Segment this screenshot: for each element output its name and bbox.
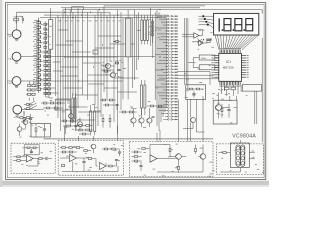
resistor R85 [195, 148, 197, 151]
IC1 pin bottom 8 [230, 81, 232, 85]
wire R103 area [119, 111, 137, 113]
resistor R61 [231, 87, 236, 90]
IC1 pin left 2 [214, 57, 219, 59]
IC1 pin bottom 3 [222, 81, 224, 85]
transistor Q4 [139, 118, 144, 123]
resistor R105 [102, 118, 104, 121]
buzzer coil turn 2 left [236, 152, 240, 156]
wire vertical bus 8 [72, 12, 74, 96]
wire F1-C1 link [16, 16, 23, 23]
IC1 pin top 7 [228, 50, 230, 54]
capacitor C22 [227, 109, 230, 110]
resistor R60 [224, 87, 229, 90]
wire opamp feed [182, 30, 207, 44]
diode D214 beside ladder [44, 88, 47, 90]
wire cluster [61, 121, 78, 131]
IC1 pin bottom 7 [228, 81, 230, 85]
wire vertical bus 29 [158, 12, 160, 131]
IC1 pin top 4 [224, 50, 226, 54]
wire ladder tap 8 [34, 53, 39, 55]
IC1 pin bottom 13 [238, 81, 240, 85]
buzzer coil turn 3 right [241, 157, 245, 161]
digit 1 [218, 18, 220, 31]
dashed box block 2 [58, 141, 123, 176]
transistor Q16 [78, 122, 83, 127]
wire vertical bus 27 [154, 12, 156, 100]
IC1 pin right 5 [241, 64, 246, 66]
wire diagonal taps [29, 101, 37, 109]
capacitor C31 [82, 161, 85, 162]
dashed box block 1 [11, 143, 55, 173]
scan shadow bottom edge [2, 181, 269, 186]
capacitor C30 [46, 157, 47, 160]
transistor Q12 [200, 154, 206, 160]
resistor R7 ladder [37, 50, 41, 52]
switch contact row 33 [159, 110, 168, 112]
IC1 pin bottom 11 [235, 81, 237, 85]
wire junction [64, 56, 65, 57]
IC1 pin right 8 [241, 71, 246, 73]
resistor R46 [63, 120, 66, 122]
wire vertical bus 25 [150, 8, 152, 46]
IC1 pin right 1 [241, 55, 246, 57]
resistor R81 [134, 156, 137, 158]
resistor R83 [142, 148, 145, 150]
wire ladder tap 10 [34, 62, 39, 64]
wire ladder tap 6 [34, 43, 39, 45]
connector pad P3 [205, 21, 207, 23]
transistor Q15 [69, 114, 74, 119]
wire vertical bus 1 [55, 18, 57, 96]
wire vertical bus 28 [156, 10, 158, 126]
wire junction [156, 17, 157, 18]
switch contact row 9 [159, 39, 168, 41]
IC1 pin right 3 [241, 59, 246, 61]
IC1 pin bottom 4 [224, 81, 226, 85]
LCD display DS1 box [214, 13, 259, 35]
resistor R22 HV bar [146, 20, 148, 40]
wire dashed top link [44, 138, 214, 140]
resistor R30 [104, 70, 107, 72]
op-amp IC1 ME7106 QFP body [219, 53, 242, 81]
capacitor bar pair C41 C42 [72, 98, 74, 119]
resistor R31 [115, 62, 118, 64]
diode D13 [152, 33, 154, 36]
resistor R12 ladder [37, 74, 41, 76]
resistor R42 [57, 102, 60, 104]
wire vertical bus 2 [57, 15, 59, 118]
resistor network RN1 tall box [49, 20, 53, 50]
wire vertical bus 23 [136, 15, 138, 70]
diode grid D301 [32, 85, 35, 87]
IC1 pin left 9 [214, 74, 219, 76]
diode D27 beside ladder [44, 56, 47, 58]
switch contact row 18 [165, 65, 168, 67]
resistor R80 [134, 151, 137, 153]
capacitor C31b [118, 152, 121, 153]
wire vertical bus 18 [109, 12, 111, 62]
resistor R71 [17, 160, 20, 162]
resistor R69a inside [27, 147, 30, 149]
IC1 pin bottom 14 [239, 81, 241, 85]
IC1 pin top 14 [239, 50, 241, 54]
connector pad P1 [202, 15, 204, 17]
wire block3 [132, 145, 204, 173]
resistor R45c [26, 117, 29, 119]
wire column B rail [44, 22, 46, 98]
wire ladder tap 2 [34, 24, 39, 26]
diode D211 beside ladder [44, 74, 47, 76]
switch contact row 2 [159, 18, 168, 20]
relay K1 box [31, 124, 51, 138]
switch contact row 4 [163, 24, 168, 26]
IC1 pin right 4 [241, 62, 246, 64]
wire vertical bus 16 [103, 8, 105, 92]
wire R107 [147, 105, 166, 107]
wire bus group: top horizontal rails [17, 11, 110, 13]
dashed separator line above bottom blocks [44, 138, 213, 140]
transistor Q20 [190, 117, 195, 122]
wire vertical bus 6 [67, 15, 69, 104]
wire junction [159, 9, 160, 10]
diode D29 beside ladder [44, 65, 47, 67]
resistor R48 [67, 125, 70, 127]
svg-text:IC1: IC1 [226, 60, 231, 64]
resistor R77 [61, 165, 64, 167]
battery box B1 [213, 100, 237, 124]
switch contact row 36 [163, 118, 168, 120]
input J1 10A jack [12, 30, 21, 39]
wire J3 right [21, 80, 123, 82]
capacitor C45 small box [93, 50, 98, 54]
IC1 pin bottom 6 [227, 81, 229, 85]
sub-circuit outline box [56, 99, 71, 110]
capacitor C16 [43, 129, 46, 130]
IC1 pin right 10 [241, 76, 246, 78]
fuse F1 [14, 18, 19, 21]
input J2 mA jack [12, 52, 21, 61]
wire ladder tap 11 [34, 67, 39, 69]
wire risers to bottom blocks [65, 96, 204, 142]
wire display bus hatch [218, 35, 256, 50]
resistor R20C column [47, 51, 50, 53]
diode grid D310 [28, 89, 31, 91]
connector pad P2 [204, 18, 206, 20]
switch contact row 30 [165, 101, 168, 103]
border frame outer [6, 3, 266, 180]
buzzer coil turn 1 left [236, 147, 240, 151]
wire Q15 Q16 [71, 110, 80, 131]
wire frame to J3 [7, 80, 12, 82]
wire ladder tap 9 [34, 57, 39, 59]
switch contact row 34 [161, 113, 168, 115]
resistor R74b [69, 151, 72, 153]
diode D210 beside ladder [44, 69, 47, 71]
wire junction [159, 56, 160, 57]
wire junction [99, 9, 100, 10]
wire vertical bus 11 [82, 10, 84, 95]
switch contact row 10 [163, 42, 168, 44]
wire vertical bus 19 [113, 15, 115, 122]
resistor R23C column [47, 65, 50, 67]
capacitor C40 [115, 104, 118, 105]
switch contact row 12 [157, 48, 168, 50]
resistor R5 ladder [37, 41, 41, 43]
resistor R73b [62, 151, 65, 153]
IC1 pin bottom 1 [219, 81, 221, 85]
wire R100 area [100, 100, 117, 110]
IC1 pin left 1 [214, 55, 219, 57]
wire vertical bus 21 [120, 12, 122, 110]
capacitor C1 [22, 18, 23, 21]
resistor R70 [17, 156, 20, 158]
IC1 pin left 4 [214, 62, 219, 64]
wire ladder bus vertical [38, 18, 40, 94]
resistor R2 ladder [37, 26, 41, 28]
resistor R27C column [47, 83, 50, 85]
buzzer BZ1 stadium right [241, 145, 245, 166]
wire block2b [61, 149, 120, 156]
diode D20 beside ladder [44, 23, 47, 25]
wire vertical bus 12 [87, 12, 89, 100]
svg-text:COM: COM [8, 83, 13, 85]
inner solid box block1 [24, 145, 39, 155]
buzzer coil turn 1 right [241, 147, 245, 151]
wire inside B1 [222, 104, 229, 118]
resistor R107 [150, 105, 153, 107]
op-amp U6 [150, 155, 157, 162]
svg-text:VΩ: VΩ [14, 117, 17, 119]
wire junction [72, 17, 73, 18]
wire ladder tap 13 [34, 76, 39, 78]
wire right-mid gap verticals [183, 100, 205, 142]
wire right rails [255, 38, 262, 142]
transistor Q1 [105, 63, 110, 68]
resistor R41 [50, 102, 53, 104]
diode D1 [26, 104, 29, 106]
wire display funnel right outer [261, 10, 263, 14]
resistor R11 ladder [37, 69, 41, 71]
wire frame to J1 [7, 33, 12, 35]
diode grid D311 [32, 89, 35, 91]
diode D40 [116, 41, 119, 43]
wire block2 bottom rail [62, 162, 118, 172]
wire R105 R106 [103, 114, 110, 128]
buzzer coil turn 4 left [236, 162, 240, 166]
resistor R78 [88, 158, 91, 160]
component value labels (illegible speck text) [20, 19, 265, 177]
switch contact row 20 [163, 71, 168, 73]
switch contact row 25 [155, 86, 167, 88]
wire diag cluster [197, 39, 204, 46]
resistor R20 HV bar [141, 20, 143, 40]
wire vertical bus 22 [134, 10, 136, 80]
diode D215 beside ladder [44, 92, 47, 94]
wire RN1 taps [45, 24, 49, 42]
digit 8 third [246, 19, 253, 31]
wire display funnel right [242, 35, 258, 50]
resistor R29C column [47, 92, 50, 94]
wire ladder tap 3 [34, 29, 39, 31]
digit 8 first [224, 19, 231, 31]
switch contact row 6 [165, 30, 168, 32]
wire junction [64, 12, 65, 13]
resistor R16 [23, 117, 25, 120]
capacitor C2 [29, 118, 32, 119]
wire inner box [25, 148, 39, 151]
op-amp U5B [100, 163, 107, 170]
diode D28 beside ladder [44, 60, 47, 62]
switch contact row 23 [165, 80, 168, 82]
wire ladder tap 1 [34, 19, 39, 21]
diode grid D320 [28, 93, 31, 95]
wire vertical bus 33 [166, 18, 168, 108]
resistor R25C column [47, 74, 50, 76]
wire vertical bus 9 [75, 15, 77, 131]
wire U3 [186, 89, 204, 98]
resistor R45b [20, 117, 23, 119]
resistor R3 ladder [37, 31, 41, 33]
wire block4 [219, 140, 255, 172]
resistor R90 [223, 152, 226, 154]
svg-text:F1: F1 [14, 16, 16, 18]
resistor R103 [122, 111, 125, 113]
wire vertical bus 7 [70, 10, 72, 126]
resistor R9 ladder [37, 60, 41, 62]
transistor Q2 [110, 72, 115, 77]
IC1 pin top 10 [233, 50, 235, 54]
wire J4 right [22, 109, 44, 111]
border frame inner [7, 4, 264, 177]
wire bundle left of opamp [185, 18, 188, 90]
switch contact row 1 [157, 15, 168, 17]
buzzer coil turn 3 left [236, 157, 240, 161]
IC1 pin top 11 [235, 50, 237, 54]
switch contact row 5 [155, 27, 167, 29]
op-amp U2B [199, 41, 204, 46]
IC1 pin left 3 [214, 59, 219, 61]
input J3 COM jack [12, 77, 21, 86]
switch contact row 3 [161, 21, 168, 23]
resistor R6 ladder [37, 45, 41, 47]
wire junction [102, 44, 103, 45]
resistor R69b inside [33, 147, 36, 149]
diode D25 beside ladder [44, 46, 47, 48]
resistor R106 [109, 118, 111, 121]
capacitor C29 inside [30, 151, 33, 152]
resistor network RN2 tall box [125, 18, 130, 57]
resistor R108 [158, 105, 161, 107]
resistor R72 [39, 158, 42, 160]
wire Q3-Q5 bases [134, 108, 150, 127]
wire below IC [219, 85, 234, 118]
resistor R8 ladder [37, 55, 41, 57]
diode grid D300 [28, 85, 31, 87]
resistor R21 HV bar [144, 20, 146, 40]
dashed box block 3 [130, 142, 214, 177]
resistor R15 ladder [37, 88, 41, 90]
resistor R74 [69, 147, 72, 149]
wire vertical bus 10 [77, 8, 79, 108]
diode grid D321 [32, 93, 35, 95]
wire jack J1 to top bus [17, 12, 61, 30]
transistor Q10 [91, 144, 96, 149]
switch contact row 29 [161, 98, 168, 100]
wire HV bars top/bottom [137, 15, 147, 44]
resistor R21C column [47, 56, 50, 58]
scan shadow left edge [0, 0, 2, 187]
box right of IC [242, 85, 261, 92]
wire top rail detail [72, 6, 205, 12]
IC1 pin top 2 [221, 50, 223, 54]
op-amp U4 [27, 155, 34, 162]
resistor R73 [62, 147, 65, 149]
resistor R43 [46, 107, 49, 109]
resistor R44 [54, 107, 57, 109]
wire IC pin drops [222, 85, 242, 100]
transistor Q7 [17, 127, 22, 132]
wire block2 [60, 148, 117, 168]
resistor R102 [105, 104, 108, 106]
IC1 pin bottom 9 [231, 81, 233, 85]
wire display funnel left [215, 35, 219, 50]
switch contact row 17 [157, 62, 168, 64]
IC1 pin right 2 [241, 57, 246, 59]
wire osc [188, 58, 218, 68]
capacitor C17 [74, 125, 77, 126]
wire ladder tap 14 [34, 81, 39, 83]
diode D23 beside ladder [44, 37, 47, 39]
resistor R52 [207, 41, 210, 43]
svg-text:VC9804A: VC9804A [232, 134, 256, 140]
diode D22 beside ladder [44, 33, 47, 35]
IC1 pin bottom 12 [236, 81, 238, 85]
IC1 pin left 8 [214, 71, 219, 73]
wire ladder tap 15 [34, 86, 39, 88]
wire vertical bus 14 [97, 10, 99, 126]
wire RN2 double rail [123, 18, 133, 99]
resistor R79 [109, 165, 112, 167]
IC1 pin right 6 [241, 67, 246, 69]
resistor R76b [112, 148, 115, 150]
IC1 pin left 7 [214, 69, 219, 71]
diode D212 beside ladder [44, 79, 47, 81]
resistor R1 ladder [37, 22, 41, 24]
switch contact row 11 [165, 45, 168, 47]
resistor R101 [109, 99, 112, 101]
wire junction [78, 80, 79, 81]
IC1 pin right 9 [241, 74, 246, 76]
wire vertical bus 32 [164, 15, 166, 112]
resistor R4 ladder [37, 36, 41, 38]
resistor R40 [43, 102, 46, 104]
capacitor C20 box [199, 65, 215, 70]
wire K1 area [17, 111, 45, 137]
input J4 V-ohm jack [13, 105, 22, 114]
buzzer BZ1 stadium left [236, 145, 240, 166]
switch contact row 13 [161, 51, 168, 53]
switch contact row 32 [157, 107, 168, 109]
wire vertical bus 26 [152, 15, 154, 58]
diode D2 [26, 108, 29, 110]
svg-text:ME7106: ME7106 [223, 65, 234, 69]
resistor R100 [102, 99, 105, 101]
wire vertical bus 13 [94, 15, 96, 105]
switch contact row 31 [163, 104, 168, 106]
diode D12 [152, 29, 154, 32]
wire interconnects [44, 30, 165, 120]
resistor R82 [134, 160, 137, 162]
